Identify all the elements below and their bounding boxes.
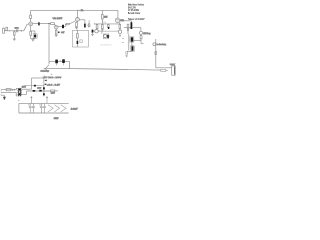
svg-text:100n: 100n (15, 28, 20, 30)
winding dots (dark) (19, 89, 21, 91)
tube V2a (76, 18, 80, 22)
resistor R2 plate load V1a (30, 15, 32, 18)
input jack J1 (3, 28, 5, 33)
wire secondary HT (22, 88, 32, 90)
resistor R11 (96, 23, 98, 26)
diode D4 (dark) (39, 90, 41, 92)
transformer core (19, 88, 22, 96)
node arrow LT (dark) (44, 83, 46, 85)
mains plug N (1, 92, 3, 93)
svg-text:standby: standby (41, 69, 51, 72)
pot P4 (153, 43, 156, 46)
wire B+ sub rail (49, 61, 70, 68)
capacitor C5 bypass V2a (dark) (79, 20, 85, 24)
diode D2 heater (dark) (34, 85, 36, 87)
ground tone (125, 55, 127, 57)
wire bus under V2b (94, 23, 120, 25)
resistor R4 cathode (30, 32, 32, 36)
node ticks rail (78, 10, 80, 12)
wire feed caps right (46, 96, 48, 103)
wire V2b plate feed (117, 10, 119, 18)
svg-text:220k: 220k (103, 22, 106, 24)
wire heater line (25, 85, 44, 87)
relay box K1 (73, 30, 89, 47)
svg-text:230V: 230V (22, 86, 27, 88)
resistor R15 (140, 35, 142, 36)
title block (128, 4, 145, 21)
tube V1a (29, 22, 33, 26)
wire V1a plate drop (30, 10, 32, 22)
capacitor C7 (dark) (108, 27, 109, 29)
wire rect line (29, 90, 50, 92)
capacitor C6 in box (dark) (77, 41, 79, 44)
svg-text:+6.3 - 8.4V: +6.3 - 8.4V (47, 84, 61, 86)
wire secondary LT (22, 91, 29, 94)
resistor R3 grid to ground (13, 31, 15, 32)
wire V2b plate out (119, 21, 131, 22)
ground earth (dark) (3, 97, 6, 99)
wire mains N (2, 92, 17, 96)
wire V2a plate (77, 10, 79, 17)
capacitor C12 (155, 52, 157, 55)
diode D3 (dark) (33, 90, 36, 92)
capacitor C9 (dark) (92, 30, 94, 33)
transformer T1 secondary (20, 88, 23, 96)
wire HT riser (31, 78, 33, 89)
svg-text:4x 22uF: 4x 22uF (71, 108, 79, 110)
resistor R22 series (64, 24, 66, 26)
svg-text:Tubes: 2x 12AX7: Tubes: 2x 12AX7 (128, 18, 145, 21)
wire input (4, 24, 28, 31)
wire V1a cathode (31, 26, 35, 34)
pot P2 (119, 28, 121, 31)
resistor R18 dropper (dark) (62, 59, 65, 63)
capacitor C15 (28, 103, 31, 113)
capacitor C10 (dark) (107, 35, 109, 38)
svg-text:to footsw.: to footsw. (157, 43, 167, 46)
node plus mark HT cap (51, 74, 52, 75)
capacitor C18 (43, 103, 46, 113)
wire output run (44, 68, 161, 70)
resistor R6 cathode V1b (55, 29, 57, 30)
wire earth (2, 95, 4, 97)
node B+ feed junction (48, 23, 49, 24)
output jack J2 (172, 66, 176, 75)
wire cap bank top bus (19, 102, 69, 104)
mains plug L (1, 89, 3, 90)
resistor R8 (88, 20, 90, 24)
wire to V1b grid (40, 23, 51, 25)
resistor R14 (127, 24, 129, 29)
ground input (13, 39, 16, 41)
pot P5 in box (104, 35, 107, 38)
wire bank left end (18, 103, 20, 113)
svg-text:Berend d'Hour: Berend d'Hour (128, 12, 141, 15)
ground V1b (55, 35, 58, 37)
svg-text:HT 26.2 - 290V: HT 26.2 - 290V (44, 77, 62, 79)
wire to mix box (98, 31, 118, 34)
resistor R10 drop (101, 10, 103, 24)
diode D6 vertical (dark) (43, 93, 45, 95)
node arrow mark (21, 30, 22, 31)
svg-text:1N4007: 1N4007 (51, 92, 55, 94)
svg-text:footswitch: footswitch (101, 44, 112, 47)
wire B+ vertical feed (48, 24, 50, 65)
wire to C20 (133, 39, 141, 41)
capacitor C20 (dark) (130, 37, 134, 42)
svg-text:350V: 350V (54, 118, 59, 120)
wire master down (155, 39, 157, 68)
switch S1 standby (45, 65, 49, 70)
capacitor C4 bypass V1b (dark) (58, 25, 62, 27)
resistor R20 (126, 52, 128, 54)
tube V1b (54, 25, 58, 29)
capacitor C1 series (17, 29, 18, 32)
wire to P3 (124, 28, 141, 32)
svg-text:1N4007: 1N4007 (37, 88, 41, 90)
capacitor C17 (39, 103, 42, 113)
wire rectifier vertical (43, 78, 45, 96)
capacitor C16 (32, 103, 35, 113)
wire HT line (32, 77, 44, 79)
chevron marks heater wiring (48, 105, 53, 112)
svg-text:V1b 12AX7: V1b 12AX7 (53, 17, 63, 20)
resistor R5 series grid (51, 23, 55, 25)
fuse F1 (6, 89, 11, 91)
wire cap bank bottom bus (19, 112, 69, 114)
svg-text:4u7: 4u7 (61, 32, 64, 34)
capacitor stubs under rail (57, 63, 64, 66)
mains plug E (1, 95, 3, 96)
resistor R16 output (161, 69, 166, 71)
switch S2 mains (12, 89, 13, 90)
tube V2b (115, 18, 119, 22)
capacitor C3 coupling (dark) (33, 23, 39, 25)
resistor R19 (51, 90, 55, 92)
capacitor C11 (dark) (131, 46, 135, 51)
node arrow HT (dark) (45, 80, 47, 82)
wire mains L (2, 89, 6, 91)
node tick bus (93, 23, 95, 24)
resistor R12 (107, 25, 109, 28)
capacitor C14 reservoir (43, 76, 46, 77)
capacitor C2 cathode bypass (33, 34, 37, 39)
wire cathode ground (31, 38, 35, 41)
node rectifier junction (42, 90, 45, 93)
node plus bank (18, 100, 19, 101)
resistor R9 in box (76, 30, 78, 33)
wire B+ top rail (31, 9, 118, 11)
wire jack feed (156, 67, 172, 69)
resistor R17 dropper (dark) (55, 60, 58, 64)
mix box K2 (103, 34, 108, 39)
resistor R7 cathode V2a (76, 21, 79, 22)
resistor R1 series input (6, 27, 8, 31)
wire tone column (127, 31, 130, 51)
resistor R13 cathode V2b (119, 22, 121, 24)
node ticks tone (122, 38, 124, 42)
node grid junction (13, 29, 16, 32)
diode D5 vertical (dark) (43, 87, 45, 89)
node plus mark (60, 60, 61, 62)
contact mark in box (80, 40, 82, 43)
wire feed caps left (30, 96, 32, 103)
pot P1 (95, 30, 98, 33)
pot P3 (139, 31, 142, 34)
svg-text:1M log: 1M log (143, 33, 151, 35)
ground V1a (31, 39, 34, 41)
resistor R21 (101, 23, 103, 26)
capacitor C8 coupling (dark) (131, 22, 133, 29)
svg-text:1k5: 1k5 (104, 16, 108, 18)
transformer T1 primary (17, 88, 20, 96)
node tick (8, 30, 10, 31)
